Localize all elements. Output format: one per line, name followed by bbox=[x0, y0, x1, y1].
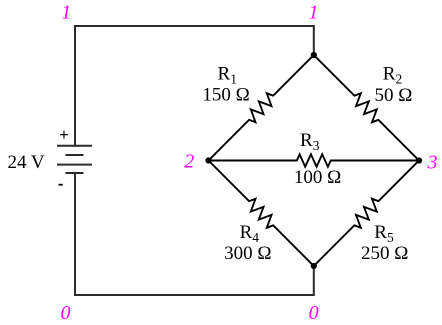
node bottom (0) bbox=[311, 263, 317, 269]
svg-text:0: 0 bbox=[309, 302, 319, 324]
svg-text:R1: R1 bbox=[218, 64, 237, 87]
svg-text:2: 2 bbox=[184, 151, 194, 173]
svg-text:100 Ω: 100 Ω bbox=[294, 167, 341, 188]
svg-text:3: 3 bbox=[427, 152, 438, 174]
node 3 bbox=[416, 157, 422, 163]
svg-text:R4: R4 bbox=[240, 222, 260, 245]
resistor R1 bbox=[209, 55, 314, 161]
svg-text:250 Ω: 250 Ω bbox=[361, 243, 408, 264]
svg-text:0: 0 bbox=[61, 302, 71, 324]
svg-text:R5: R5 bbox=[374, 222, 394, 245]
svg-text:50 Ω: 50 Ω bbox=[374, 85, 412, 106]
battery 24V bbox=[58, 146, 91, 173]
svg-text:300 Ω: 300 Ω bbox=[224, 243, 271, 264]
svg-text:1: 1 bbox=[61, 1, 71, 23]
resistor R3 bbox=[209, 154, 420, 166]
svg-text:R2: R2 bbox=[383, 64, 402, 87]
resistor R2 bbox=[314, 55, 419, 161]
svg-text:+: + bbox=[59, 125, 69, 144]
battery minus bbox=[59, 184, 63, 186]
svg-text:150 Ω: 150 Ω bbox=[202, 85, 249, 106]
resistor R4 bbox=[209, 161, 314, 267]
wire bbox=[75, 173, 314, 295]
svg-text:1: 1 bbox=[309, 1, 319, 23]
svg-text:24 V: 24 V bbox=[8, 152, 45, 173]
node top (1) bbox=[311, 52, 317, 58]
svg-text:R3: R3 bbox=[300, 130, 320, 153]
resistor R5 bbox=[314, 161, 419, 267]
wire bbox=[75, 26, 314, 146]
node 2 bbox=[205, 157, 211, 163]
